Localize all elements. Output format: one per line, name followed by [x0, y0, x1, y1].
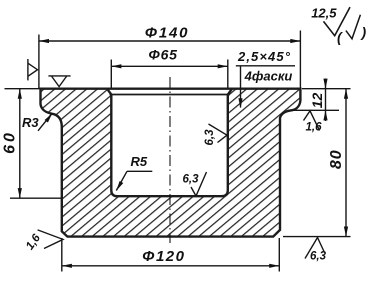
svg-text:6,3: 6,3 — [310, 251, 327, 263]
svg-text:12,5: 12,5 — [311, 6, 337, 21]
svg-text:80: 80 — [328, 149, 345, 169]
svg-text:60: 60 — [2, 130, 19, 154]
svg-text:R5: R5 — [131, 154, 148, 169]
svg-text:6,3: 6,3 — [183, 174, 200, 186]
svg-text:12: 12 — [309, 93, 325, 109]
svg-text:4фаски: 4фаски — [244, 69, 293, 84]
svg-text:Φ140: Φ140 — [145, 25, 190, 42]
svg-text:Φ65: Φ65 — [148, 47, 177, 63]
svg-text:1,6: 1,6 — [306, 122, 323, 134]
svg-text:6,3: 6,3 — [204, 129, 216, 146]
svg-text:2,5×45°: 2,5×45° — [237, 49, 291, 64]
svg-text:): ) — [360, 24, 367, 40]
svg-text:R3: R3 — [22, 115, 39, 130]
svg-text:Φ120: Φ120 — [142, 248, 185, 265]
svg-text:(: ( — [337, 29, 343, 45]
svg-text:1,6: 1,6 — [24, 232, 43, 252]
